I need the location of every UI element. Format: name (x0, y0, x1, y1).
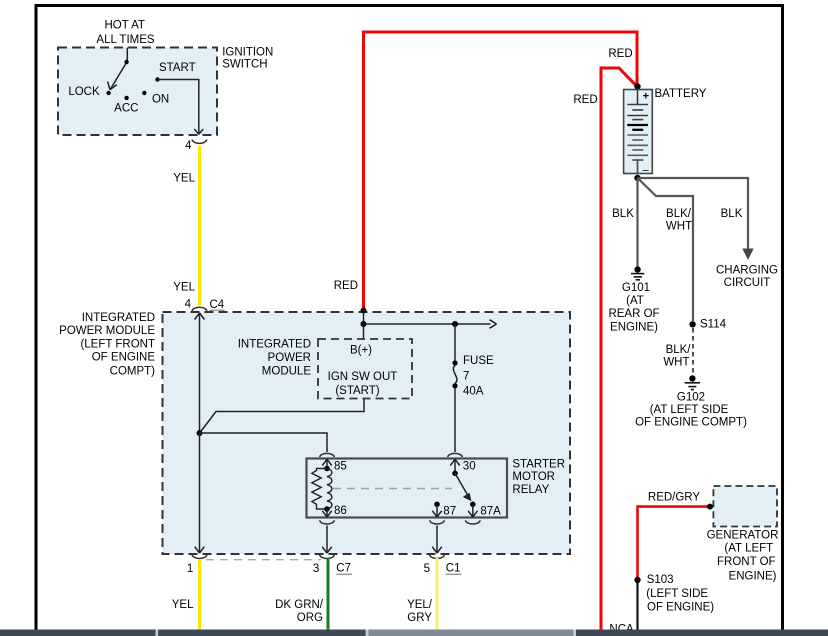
svg-text:YEL: YEL (172, 599, 194, 611)
wire START output (158, 80, 199, 134)
svg-text:87: 87 (443, 505, 456, 517)
svg-text:CIRCUIT: CIRCUIT (724, 277, 771, 289)
node ACC (124, 96, 128, 100)
svg-text:POWER: POWER (268, 352, 311, 364)
svg-text:ALL TIMES: ALL TIMES (96, 34, 154, 46)
wire S103 down (636, 583, 638, 630)
label IGNITION SWITCH (222, 46, 273, 70)
node battery positive (634, 83, 640, 89)
svg-text:BLK: BLK (612, 208, 634, 220)
wire RED IPM to battery top (364, 32, 638, 310)
label FUSE 7 40A (463, 355, 494, 398)
connector arc below 87A (465, 520, 480, 524)
svg-text:4: 4 (185, 299, 192, 311)
svg-text:ACC: ACC (114, 103, 138, 115)
svg-text:RED: RED (608, 48, 632, 60)
node B+ branch (361, 321, 367, 327)
svg-text:YEL/: YEL/ (407, 599, 433, 611)
svg-text:POWER MODULE: POWER MODULE (59, 325, 155, 337)
svg-text:WHT: WHT (663, 357, 689, 369)
connector arc below 87 (430, 520, 445, 524)
label IGN SW OUT (START) (328, 371, 398, 397)
label BLK/WHT (666, 208, 692, 233)
svg-text:RED/GRY: RED/GRY (648, 491, 701, 503)
connector arc pin 85 (320, 453, 335, 457)
pin 30 (450, 459, 475, 476)
svg-text:B(+): B(+) (350, 345, 372, 357)
connector arc exit 3 (320, 555, 335, 559)
wire YEL ignition to C4 (198, 146, 201, 306)
label C7 (336, 563, 352, 575)
svg-text:87A: 87A (480, 505, 501, 517)
wire DK GRN/ORG exit 3 (327, 558, 330, 630)
wire dashed S114 to G102 (692, 328, 694, 375)
svg-text:OF ENGINE COMPT): OF ENGINE COMPT) (635, 417, 747, 429)
label DK GRN/ORG (275, 599, 324, 624)
label inner INTEGRATED POWER MODULE (238, 338, 312, 377)
node battery negative (634, 175, 640, 181)
label STARTER MOTOR RELAY (512, 458, 565, 496)
wire RED/GRY S103 to generator (638, 507, 709, 579)
label GENERATOR (AT LEFT FRONT OF ENGINE) (707, 530, 779, 583)
pin 86 (322, 505, 346, 517)
svg-text:–: – (642, 164, 649, 176)
wire BLK to charging circuit (638, 178, 754, 260)
connector arc below 86 (320, 520, 335, 524)
battery (624, 90, 653, 177)
svg-text:MOTOR: MOTOR (512, 471, 555, 483)
svg-text:INTEGRATED: INTEGRATED (82, 312, 155, 324)
svg-text:(LEFT SIDE: (LEFT SIDE (646, 588, 708, 600)
node red entry (361, 308, 367, 314)
wire 87 to exit 5 (432, 526, 442, 554)
svg-text:S114: S114 (700, 318, 727, 330)
inner module box B(+)/IGN SW OUT (318, 339, 412, 399)
svg-text:BLK: BLK (721, 208, 743, 220)
label INTEGRATED POWER MODULE (LEFT FRONT OF ENGINE COMPT) (59, 312, 155, 377)
bottom window bar (0, 630, 828, 636)
svg-text:BLK/: BLK/ (666, 344, 692, 356)
svg-text:START: START (159, 62, 196, 74)
pin 87A (468, 502, 501, 518)
relay coil resistor (312, 469, 327, 510)
ground G102 (685, 375, 700, 389)
label C1 (446, 563, 462, 575)
label G102 (AT LEFT SIDE OF ENGINE COMPT) (635, 392, 747, 429)
wire bus with arrow (364, 320, 497, 329)
svg-text:86: 86 (334, 505, 347, 517)
svg-text:STARTER: STARTER (512, 458, 565, 470)
node LOCK (106, 91, 110, 95)
svg-text:C1: C1 (446, 563, 461, 575)
svg-text:4: 4 (185, 140, 192, 152)
wire YEL/GRY exit 5 (436, 558, 439, 630)
svg-text:INTEGRATED: INTEGRATED (238, 338, 311, 350)
svg-text:G102: G102 (677, 392, 705, 404)
svg-text:ORG: ORG (297, 612, 323, 624)
svg-text:ENGINE): ENGINE) (729, 570, 777, 582)
label G101 (AT REAR OF ENGINE) (608, 282, 659, 333)
wire B(+) feed (363, 311, 365, 340)
generator box (713, 486, 777, 527)
label CHARGING CIRCUIT (716, 264, 778, 288)
svg-text:SWITCH: SWITCH (222, 59, 267, 71)
svg-text:DK GRN/: DK GRN/ (275, 599, 324, 611)
integrated power module box (163, 312, 571, 554)
relay coil humps (327, 469, 332, 510)
node S114 (689, 318, 726, 330)
arrow exit 1 (195, 547, 205, 553)
svg-text:IGNITION: IGNITION (222, 46, 273, 58)
dashed link line (333, 488, 452, 490)
svg-text:40A: 40A (463, 386, 484, 398)
label YEL/GRY (407, 599, 433, 624)
wire 86 to exit 3 (322, 526, 332, 554)
svg-text:MODULE: MODULE (262, 365, 312, 377)
svg-text:GRY: GRY (407, 612, 432, 624)
ignition switch box (58, 48, 217, 136)
node S103 (634, 574, 673, 586)
svg-text:BATTERY: BATTERY (655, 88, 707, 100)
wire junction to exit 1 (199, 433, 201, 552)
starter motor relay box (307, 459, 508, 518)
svg-text:(LEFT FRONT: (LEFT FRONT (80, 338, 155, 350)
connector arc pin 30 (448, 453, 463, 457)
svg-text:FRONT OF: FRONT OF (717, 556, 776, 568)
wire YEL exit 1 (198, 560, 201, 630)
svg-text:30: 30 (463, 460, 476, 472)
node START (155, 77, 159, 81)
svg-text:OF ENGINE): OF ENGINE) (647, 602, 714, 614)
wire BLK/WHT to S114 (638, 178, 694, 321)
svg-text:HOT AT: HOT AT (104, 20, 144, 32)
svg-text:OF ENGINE: OF ENGINE (92, 352, 156, 364)
svg-text:3: 3 (313, 563, 319, 575)
svg-text:YEL: YEL (173, 173, 195, 185)
node junction (197, 430, 203, 436)
svg-text:WHT: WHT (666, 221, 692, 233)
label HOT AT ALL TIMES (96, 20, 154, 47)
svg-text:ON: ON (152, 93, 169, 105)
svg-text:YEL: YEL (173, 282, 195, 294)
svg-text:RED: RED (334, 280, 358, 292)
node fuse branch (452, 321, 458, 327)
svg-text:+: + (643, 91, 649, 103)
wire junction to relay pin 85 (200, 433, 328, 452)
svg-text:COMPT): COMPT) (110, 365, 156, 377)
wire feed into switch (126, 48, 128, 63)
svg-text:(START): (START) (335, 385, 379, 397)
label (LEFT SIDE OF ENGINE) (646, 588, 714, 614)
arrow entry C4 (195, 313, 205, 320)
node ON (142, 91, 146, 95)
svg-text:C7: C7 (336, 563, 351, 575)
fuse F7 40A (452, 324, 457, 452)
svg-text:C4: C4 (210, 299, 225, 311)
svg-text:5: 5 (424, 563, 430, 575)
svg-text:G101: G101 (622, 282, 650, 294)
svg-text:LOCK: LOCK (68, 86, 100, 98)
node generator terminal (707, 504, 713, 510)
relay contact arm (455, 473, 471, 500)
connector arc exit 1 (192, 555, 207, 559)
wire RED battery to lower right (601, 68, 638, 630)
connector 4 arc (192, 140, 207, 144)
svg-text:S103: S103 (647, 574, 674, 586)
svg-text:7: 7 (463, 371, 469, 383)
switch lever arrow (108, 62, 127, 90)
ground G101 (631, 266, 644, 280)
wire C4 down to junction (199, 313, 201, 433)
label BLK/WHT (663, 344, 691, 369)
svg-text:85: 85 (334, 461, 347, 473)
svg-text:(AT LEFT SIDE: (AT LEFT SIDE (650, 404, 729, 416)
arrow into connector 4 (194, 129, 203, 134)
connector arc exit 5 (430, 555, 445, 559)
connector body dashed line (206, 559, 321, 561)
svg-text:IGN SW OUT: IGN SW OUT (328, 371, 398, 383)
svg-text:(AT LEFT: (AT LEFT (724, 543, 773, 555)
svg-text:RELAY: RELAY (512, 484, 549, 496)
svg-text:FUSE: FUSE (463, 355, 494, 367)
svg-text:CHARGING: CHARGING (716, 264, 778, 276)
wire BLK to G101 (636, 178, 638, 266)
svg-text:GENERATOR: GENERATOR (707, 530, 779, 542)
pin 85 (322, 459, 346, 472)
label C4 (210, 299, 225, 311)
svg-text:1: 1 (187, 563, 193, 575)
svg-text:ENGINE): ENGINE) (610, 321, 658, 333)
svg-text:REAR OF: REAR OF (608, 308, 659, 320)
svg-text:BLK/: BLK/ (666, 208, 692, 220)
svg-text:RED: RED (573, 94, 597, 106)
svg-text:(AT: (AT (626, 295, 644, 307)
connector C4 arc (192, 307, 207, 311)
node pivot (124, 60, 128, 64)
pin 87 (432, 502, 456, 518)
wire IGN SW OUT to junction (200, 399, 364, 433)
